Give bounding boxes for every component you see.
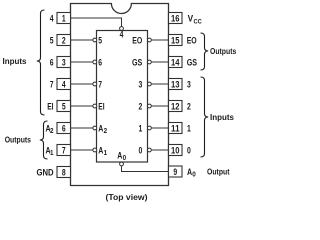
svg-text:6: 6 [62,123,66,134]
svg-text:EI: EI [47,101,53,112]
svg-text:2: 2 [104,126,108,135]
svg-text:EI: EI [98,101,104,112]
svg-text:13: 13 [171,79,180,90]
svg-text:Outputs: Outputs [5,135,32,145]
svg-text:1: 1 [187,123,191,134]
svg-text:GS: GS [187,57,197,68]
svg-text:7: 7 [62,145,66,156]
svg-text:14: 14 [171,57,180,68]
svg-text:0: 0 [123,153,127,162]
svg-text:12: 12 [171,101,180,112]
svg-text:Output: Output [207,167,230,177]
svg-text:EO: EO [187,35,197,46]
svg-text:4: 4 [120,29,124,40]
svg-text:GS: GS [132,57,142,68]
svg-text:(Top view): (Top view) [106,192,148,202]
svg-text:11: 11 [171,123,180,134]
svg-text:Inputs: Inputs [3,56,27,66]
svg-text:Inputs: Inputs [210,112,234,122]
svg-text:9: 9 [173,167,177,178]
svg-text:2: 2 [187,101,191,112]
svg-text:3: 3 [187,79,191,90]
svg-text:1: 1 [62,13,66,24]
svg-text:7: 7 [98,79,102,90]
svg-text:CC: CC [194,18,202,25]
svg-text:1: 1 [139,123,143,134]
svg-text:10: 10 [171,145,180,156]
svg-text:15: 15 [171,35,180,46]
svg-text:5: 5 [50,35,54,46]
svg-text:8: 8 [62,167,66,178]
svg-text:0: 0 [187,145,191,156]
svg-text:7: 7 [50,79,54,90]
svg-text:1: 1 [50,148,54,157]
svg-text:0: 0 [139,145,143,156]
svg-text:4: 4 [50,13,54,24]
svg-text:5: 5 [62,101,66,112]
svg-text:2: 2 [62,35,66,46]
svg-text:3: 3 [139,79,143,90]
svg-text:5: 5 [98,35,102,46]
svg-text:Outputs: Outputs [210,46,237,56]
svg-text:0: 0 [192,170,196,179]
svg-text:EO: EO [132,35,142,46]
svg-text:2: 2 [139,101,143,112]
svg-text:4: 4 [62,79,66,90]
svg-text:16: 16 [171,13,180,24]
svg-text:2: 2 [50,126,54,135]
svg-text:6: 6 [50,57,54,68]
svg-text:GND: GND [37,167,54,178]
svg-text:3: 3 [62,57,66,68]
svg-text:1: 1 [104,148,108,157]
svg-text:6: 6 [98,57,102,68]
